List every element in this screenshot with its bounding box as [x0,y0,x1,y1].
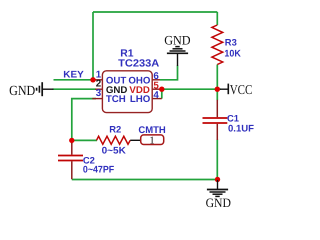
svg-text:0.1UF: 0.1UF [228,124,254,135]
power port VCC [220,82,252,97]
wire R3 top lead [216,12,218,25]
svg-text:TC233A: TC233A [118,58,160,69]
svg-text:GND: GND [9,84,35,99]
wire bottom rail from C2 to GND node [72,179,218,181]
svg-text:TCH: TCH [106,94,126,105]
junction node R3/VCC rail [215,87,220,92]
wire C1 bottom to bottom rail [216,140,218,180]
svg-text:C1: C1 [227,113,239,124]
junction node KEY/pin1 [90,77,95,82]
IC R1 body TC233A [102,71,152,113]
wire top rail from KEY riser to R3 [93,11,217,13]
svg-text:GND: GND [164,32,190,47]
junction node pin3/R2/C2 [69,138,74,143]
svg-text:0~5K: 0~5K [102,146,126,157]
power port GND top [164,32,190,66]
resistor R2 [97,136,131,144]
wire R3 bottom to VCC rail [216,65,218,90]
op IC U1 pin stubs left [92,80,162,99]
resistor R3 [212,25,223,65]
wire node to R2 [72,139,97,141]
wire VCC rail down to C1 [216,89,218,100]
port CMTH box pin 1 [141,135,164,147]
svg-text:4: 4 [153,90,159,101]
svg-text:LHO: LHO [130,94,151,105]
svg-text:0~47PF: 0~47PF [83,165,114,176]
power port GND bottom [206,180,231,210]
wire pin 4 riser to VCC rail [161,89,163,98]
svg-text:VCC: VCC [230,82,253,97]
power port GND left [9,82,53,99]
junction node bottom GND [215,177,220,182]
svg-text:10K: 10K [224,48,240,59]
svg-text:R3: R3 [225,37,237,48]
connector CMTH pin wire [130,139,141,141]
svg-text:3: 3 [96,88,102,99]
svg-text:KEY: KEY [63,69,84,80]
junction node pin4/pin5 VCC [159,87,164,92]
wire pin 6 to top GND [160,66,178,80]
capacitor C2 [58,143,83,179]
wire left GND to pin 2 [53,88,97,90]
wire node down to C2 [71,140,73,143]
wire KEY stub to pin 1 [54,79,97,81]
wire pin 3 to left riser [72,99,96,141]
svg-text:1: 1 [149,135,154,146]
wire left riser down to KEY node [92,12,94,80]
capacitor C1 [203,100,228,140]
svg-text:R2: R2 [109,123,121,134]
wire VCC rail from pin 5 [160,88,221,90]
svg-text:GND: GND [206,196,231,210]
